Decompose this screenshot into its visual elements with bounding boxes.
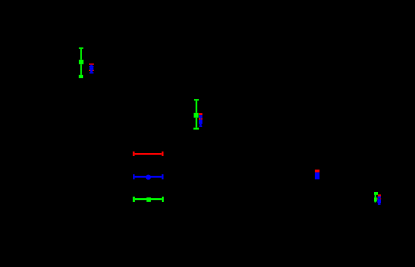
cluster D red errorbar: [377, 194, 381, 199]
cluster B red errorbar: [199, 113, 203, 120]
point C blue errorbar: [315, 172, 320, 179]
cluster A red errorbar: [89, 64, 94, 72]
cluster D blue errorbar: [377, 196, 381, 205]
legend red sample: [133, 152, 164, 157]
cluster B green errorbar: [193, 99, 199, 129]
cluster A green errorbar: [79, 47, 84, 78]
cluster A blue errorbar: [89, 65, 93, 74]
legend green sample: [133, 197, 164, 202]
cluster D green errorbar: [374, 192, 378, 202]
cluster B blue errorbar: [199, 115, 203, 127]
point C red marker: [315, 170, 320, 173]
legend blue sample: [133, 174, 163, 180]
